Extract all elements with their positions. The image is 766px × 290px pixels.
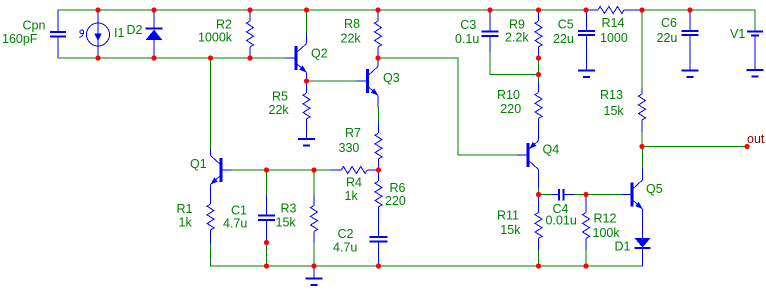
wire second rail y=58 (58, 57, 285, 59)
resistor R3 (276, 195, 318, 243)
wire Q2 emitter to Q3 base (307, 80, 357, 82)
transistor Q2 (285, 33, 328, 81)
svg-text:4.7u: 4.7u (223, 217, 247, 231)
svg-text:1000: 1000 (600, 31, 628, 45)
svg-text:0.1u: 0.1u (455, 32, 479, 46)
capacitor C5 (553, 10, 595, 71)
wire bottom rail (211, 265, 644, 267)
wire C1 column lower (266, 243, 268, 267)
svg-text:R5: R5 (272, 90, 288, 104)
svg-text:1k: 1k (345, 189, 359, 203)
capacitor C1 (223, 195, 275, 243)
resistor R4 (330, 167, 379, 204)
svg-text:V1: V1 (730, 27, 745, 41)
svg-text:I1: I1 (114, 26, 124, 40)
wire R12 bottom (585, 250, 587, 266)
svg-text:R14: R14 (602, 16, 625, 30)
svg-text:1000k: 1000k (198, 31, 233, 45)
wire R1 bottom (210, 244, 212, 267)
transistor Q4 (517, 131, 559, 189)
wire Cpn bottom (57, 57, 98, 59)
capacitor Cpn (2, 10, 66, 59)
svg-text:22k: 22k (341, 32, 362, 46)
wire R13 top (641, 10, 643, 89)
svg-text:C1: C1 (231, 203, 247, 217)
svg-text:R4: R4 (346, 176, 362, 190)
ground below V1 (746, 70, 763, 77)
wire R9 bottom to R10 top (538, 58, 540, 82)
svg-text:R10: R10 (497, 88, 520, 102)
wire C4 right to Q5 base (574, 194, 622, 196)
svg-text:220: 220 (385, 194, 406, 208)
svg-text:R12: R12 (594, 211, 617, 225)
svg-text:C3: C3 (460, 18, 476, 32)
svg-text:R7: R7 (345, 126, 361, 140)
svg-text:C6: C6 (661, 16, 677, 30)
svg-text:R6: R6 (390, 181, 406, 195)
node out (747, 132, 765, 146)
resistor R2 (198, 10, 254, 58)
svg-text:R9: R9 (509, 18, 525, 32)
svg-text:R1: R1 (177, 202, 193, 216)
svg-text:4.7u: 4.7u (333, 240, 357, 254)
wire Q5 collector (642, 147, 644, 169)
svg-text:Q1: Q1 (190, 157, 207, 171)
svg-text:22u: 22u (657, 31, 678, 45)
ground below C5 (578, 71, 595, 78)
svg-text:1k: 1k (179, 216, 193, 230)
svg-text:Q4: Q4 (543, 142, 560, 156)
svg-text:C2: C2 (338, 227, 354, 241)
resistor R12 (583, 195, 621, 251)
svg-text:out: out (747, 132, 765, 146)
resistor R5 (269, 81, 311, 139)
wire Q1 collector (210, 58, 212, 149)
wire R13 bottom to out node (641, 132, 643, 147)
wire R3 column lower (313, 243, 315, 267)
svg-text:D2: D2 (127, 23, 143, 37)
resistor R10 (497, 82, 542, 141)
resistor R1 (177, 185, 215, 245)
svg-text:15k: 15k (604, 104, 625, 118)
battery V1 (730, 27, 763, 70)
ground below C6 (681, 71, 698, 78)
svg-text:R2: R2 (216, 18, 232, 32)
svg-text:Q2: Q2 (311, 47, 328, 61)
wire R11 bottom (538, 250, 540, 266)
svg-text:Q5: Q5 (646, 182, 663, 196)
resistor R14 (586, 7, 642, 45)
svg-text:R13: R13 (600, 88, 623, 102)
wire R3 column upper (313, 170, 315, 195)
capacitor C4 (546, 189, 577, 228)
wire C1 column upper (266, 170, 268, 195)
wire Q1 base net y=170 (232, 169, 331, 171)
resistor R9 (505, 10, 542, 58)
resistor R11 (497, 195, 542, 251)
svg-text:Q3: Q3 (383, 71, 400, 85)
resistor R8 (341, 10, 382, 58)
wire from R8 bottom to Q4 base (378, 57, 517, 155)
wire out (642, 146, 747, 148)
wire top rail right segment (642, 9, 756, 11)
svg-text:100k: 100k (593, 226, 621, 240)
svg-text:0.01u: 0.01u (546, 214, 577, 228)
ground on bottom rail (305, 266, 322, 285)
svg-text:R8: R8 (344, 17, 360, 31)
svg-text:160pF: 160pF (2, 32, 38, 46)
svg-text:22u: 22u (553, 32, 574, 46)
svg-text:R3: R3 (281, 202, 297, 216)
wire Cpn top (57, 9, 98, 11)
svg-text:22k: 22k (269, 103, 290, 117)
wire top rail left segment (58, 9, 586, 11)
wire Q2 collector (306, 10, 308, 33)
resistor R6 (375, 170, 406, 218)
wire C3 bottom L (490, 52, 539, 75)
resistor R13 (600, 88, 646, 132)
wire Q3 emitter to R7 (378, 107, 380, 122)
svg-text:R11: R11 (497, 209, 519, 223)
capacitor C2 (333, 218, 388, 266)
svg-text:220: 220 (500, 102, 521, 116)
wire Q4 collector to node (538, 188, 540, 195)
svg-text:D1: D1 (615, 240, 631, 254)
capacitor C6 (657, 10, 699, 71)
svg-text:2.2k: 2.2k (505, 31, 529, 45)
transistor Q5 (622, 168, 663, 238)
svg-text:330: 330 (339, 141, 360, 155)
transistor Q1 (190, 149, 232, 185)
wire C4 left (539, 194, 552, 196)
svg-text:15k: 15k (500, 223, 521, 237)
svg-text:Cpn: Cpn (23, 19, 46, 33)
capacitor C3 (455, 10, 499, 52)
current source I1 (80, 10, 125, 58)
svg-text:15k: 15k (276, 216, 297, 230)
ground below R5 (298, 139, 315, 146)
diode D2 (127, 10, 163, 58)
transistor Q3 (357, 58, 400, 108)
wire V1 top lead (754, 9, 756, 31)
diode D1 (615, 238, 651, 266)
resistor R7 (339, 122, 383, 170)
svg-text:C5: C5 (558, 18, 574, 32)
